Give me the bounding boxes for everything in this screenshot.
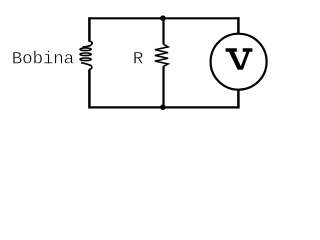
resistor R zigzag: [155, 44, 168, 66]
wire bottom: [90, 106, 239, 108]
junction dot bottom: [160, 104, 166, 110]
wire top: [90, 17, 239, 19]
inductor L1 loop 2: [80, 53, 91, 56]
wire left upper: [88, 17, 91, 41]
inductor L1 bottom hook: [81, 63, 92, 70]
wire right upper: [237, 17, 240, 34]
junction dot top: [160, 15, 166, 21]
voltmeter U1 circle: [211, 34, 267, 90]
wire right lower: [237, 89, 240, 108]
wire left lower: [88, 69, 91, 108]
inductor L1 top hook: [83, 41, 93, 47]
wire resistor bottom lead: [162, 66, 164, 107]
wire resistor top lead: [162, 18, 164, 44]
svg-text:R: R: [133, 50, 144, 70]
inductor L1 loop 3: [80, 58, 91, 61]
svg-text:Bobina: Bobina: [12, 50, 74, 70]
voltmeter U1 letter V: [226, 48, 253, 69]
inductor L1 loop 1: [80, 48, 91, 51]
